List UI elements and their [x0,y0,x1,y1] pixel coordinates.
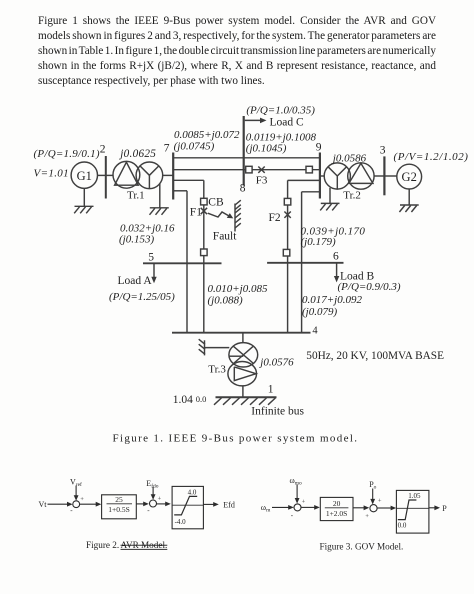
svg-text:(P/Q=1.25/05): (P/Q=1.25/05) [109,291,175,303]
svg-text:F3: F3 [256,175,268,187]
svg-text:ωmo: ωmo [290,476,303,487]
fault marker X F2 [284,212,290,218]
fault marker X F1 [201,208,207,214]
wire bus 3 to G2 [384,175,396,177]
line 9-6 circuit 2 stub [302,191,320,193]
summer 2 [370,505,377,512]
svg-text:Tr.1: Tr.1 [127,189,145,201]
svg-text:j0.0625: j0.0625 [118,148,156,160]
breaker square on line 9-6 [284,198,291,205]
bus 4 [172,332,311,334]
svg-text:3: 3 [380,144,386,156]
svg-text:0.0085+j0.072: 0.0085+j0.072 [174,129,240,141]
bus 5 [143,262,222,264]
bus 7 [172,153,174,200]
svg-text:V=1.01: V=1.01 [34,168,70,180]
bus 8 [243,116,245,186]
wire bus 9 to Tr.2 [321,175,324,177]
svg-text:AVR Model.: AVR Model. [121,540,168,550]
wire summer 1 to block [80,502,102,507]
line 5-4 circuit 1 [186,263,188,332]
svg-text:0.0: 0.0 [196,394,207,404]
line 9-6 circuit 2 vertical [301,192,303,333]
svg-text:20: 20 [333,499,341,508]
generator G2 [397,164,422,189]
svg-text:9: 9 [316,142,322,154]
wire Tr.2 to bus 3 [374,175,383,177]
svg-text:(P/V=1.2/1.02): (P/V=1.2/1.02) [394,151,469,163]
svg-text:(P/Q=1.0/0.35): (P/Q=1.0/0.35) [246,105,315,117]
arrow omega-mo into summer [295,485,300,504]
fault marker X F3 [258,167,264,173]
transformer Tr.1 [113,161,163,188]
svg-text:+: + [365,513,369,520]
svg-text:-: - [70,507,73,515]
summer 2 [150,500,157,507]
transformer Tr.3 [228,343,258,386]
infinite bus ground bar [214,397,277,405]
svg-text:(j0.079): (j0.079) [302,306,337,318]
bus 6 [267,262,343,264]
svg-text:(j0.1045): (j0.1045) [246,143,287,155]
svg-text:Load A: Load A [118,275,153,287]
arrow Vt into summer [48,502,73,507]
wire G1 to bus 2 and Tr.1 [98,174,114,176]
line 7-5 circuit 2 stub [173,190,187,192]
AVR transfer block 25/(1+0.5S) [102,495,137,519]
svg-text:j0.0576: j0.0576 [258,357,294,369]
svg-text:1+2.0S: 1+2.0S [326,509,348,518]
arrow omega-m into summer [272,505,294,510]
svg-text:(P/Q=1.9/0.1): (P/Q=1.9/0.1) [34,148,100,160]
svg-text:Tr.3: Tr.3 [208,364,226,376]
svg-text:0.032+j0.16: 0.032+j0.16 [120,223,175,235]
svg-text:25: 25 [115,495,123,504]
fault zigzag arrow [208,212,234,218]
AVR limiter block [172,486,203,528]
breaker square lower on line 7-5 [201,249,208,256]
line 5-4 circuit 2 [203,263,205,332]
svg-text:Vt: Vt [39,500,48,509]
svg-text:1.05: 1.05 [408,492,421,500]
svg-text:0.010+j0.085: 0.010+j0.085 [208,283,268,295]
breaker square on circuit 2 right [306,166,312,173]
line 7-8-9 circuit 2 [173,169,320,171]
wire bus 4 to Tr.3 [242,333,244,343]
Load A arrow [151,263,156,283]
svg-text:CB: CB [208,196,224,208]
line 9-6 circuit 1 stub [288,179,320,181]
arrow Vref into summer [74,486,79,501]
svg-text:(j0.153): (j0.153) [119,234,154,246]
bus 2 [105,156,107,199]
wire limiter to Efd output [203,502,218,507]
svg-text:Figure 3. GOV Model.: Figure 3. GOV Model. [320,542,404,552]
svg-text:4: 4 [312,326,318,337]
bus 9 [319,153,321,199]
svg-text:-4.0: -4.0 [175,518,187,526]
breaker CB square [201,198,208,205]
wire limiter to P output [429,505,440,510]
svg-text:4.0: 4.0 [188,489,197,497]
svg-text:1: 1 [268,383,274,395]
breaker square lower on line 9-6 [283,249,290,256]
wire Tr.1 to bus 7 [163,174,173,176]
arrow Po into summer 2 [370,489,375,505]
GOV transfer block 20/(1+2.0S) [320,497,353,520]
svg-text:+: + [80,496,84,503]
line 9-6 circuit 1 vertical [287,180,289,332]
summer 1 [73,501,80,508]
svg-text:Load C: Load C [270,116,305,128]
ground under Tr.1 [150,184,169,215]
ground under G1 [74,188,93,213]
svg-text:ωm: ωm [261,503,271,514]
svg-text:6: 6 [333,251,339,263]
ground under G2 [399,189,418,212]
svg-text:0.0119+j0.1008: 0.0119+j0.1008 [246,131,317,143]
svg-text:(j0.0745): (j0.0745) [174,140,215,152]
ground beside Tr.3 [199,339,230,355]
svg-text:(j0.088): (j0.088) [208,294,243,306]
line 7-5 circuit 2 vertical [186,191,188,263]
svg-text:Figure 1. IEEE 9-Bus power sy: Figure 1. IEEE 9-Bus power system model. [113,433,359,445]
wire summer 2 to limiter [377,506,396,511]
Load B arrow [334,263,339,283]
svg-text:0.0: 0.0 [398,522,407,530]
line 7-5 circuit 1 stub [173,179,204,181]
svg-text:7: 7 [164,143,170,155]
svg-text:2: 2 [100,144,106,156]
svg-text:j0.0586: j0.0586 [331,153,367,165]
breaker square on circuit 2 left [246,166,252,173]
svg-text:G2: G2 [402,170,417,184]
svg-text:Efdo: Efdo [146,479,158,490]
svg-text:8: 8 [240,183,246,195]
svg-text:-: - [147,506,150,514]
svg-text:Fault: Fault [213,230,237,242]
wire summer 1 to block [301,505,320,510]
svg-text:(j0.179): (j0.179) [301,236,336,248]
svg-text:5: 5 [148,251,154,263]
svg-text:1+0.5S: 1+0.5S [108,505,130,514]
svg-text:50Hz, 20 KV, 100MVA BASE: 50Hz, 20 KV, 100MVA BASE [306,350,444,362]
arrow Efdo into summer 2 [151,487,156,500]
summer 1 [294,504,301,511]
svg-text:+: + [302,499,306,506]
svg-text:(P/Q=0.9/0.3): (P/Q=0.9/0.3) [338,281,401,293]
svg-text:G1: G1 [77,169,92,183]
GOV limiter block [396,490,429,533]
svg-text:+: + [378,498,382,505]
svg-text:F1: F1 [190,206,202,218]
svg-text:Tr.2: Tr.2 [343,190,361,202]
svg-text:0.017+j0.092: 0.017+j0.092 [302,294,362,306]
svg-text:Efd: Efd [223,500,235,509]
line 7-5 circuit 1 vertical [203,180,205,263]
svg-text:-: - [291,511,294,519]
svg-text:Infinite bus: Infinite bus [251,405,304,417]
ground under Tr.2 [320,188,339,211]
Load C arrow [245,118,267,124]
wire summer 2 to limiter [157,502,171,507]
line 7-8-9 circuit 1 [173,157,320,159]
wire block to summer 2 [353,505,369,510]
wire block to summer 2 [136,502,149,507]
wire Tr.3 to infinite bus [242,386,244,397]
transformer Tr.2 [324,163,374,189]
svg-text:Figure 2.: Figure 2. [86,540,119,550]
bus 3 [383,156,385,195]
svg-text:P: P [442,504,447,513]
svg-text:1.04: 1.04 [173,394,193,406]
svg-text:F2: F2 [269,212,281,224]
generator G1 [71,162,97,188]
svg-text:+: + [158,496,162,503]
fault wall [235,200,241,231]
